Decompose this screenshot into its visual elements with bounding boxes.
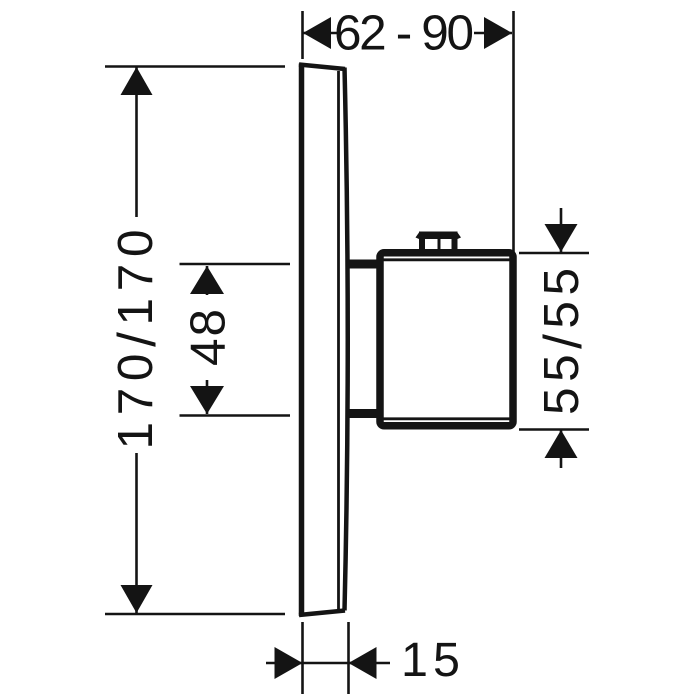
svg-text:48: 48 (181, 309, 236, 366)
svg-text:62 - 90: 62 - 90 (334, 6, 474, 61)
svg-text:55/55: 55/55 (534, 268, 593, 415)
